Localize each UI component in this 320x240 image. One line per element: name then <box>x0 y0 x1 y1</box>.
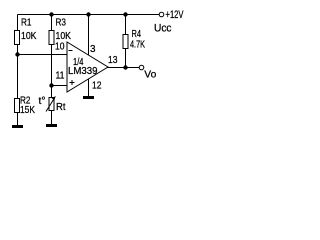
wire node B to Rt <box>51 86 53 98</box>
wire R4 bottom to output node <box>125 49 127 68</box>
svg-text:+12V: +12V <box>166 9 184 21</box>
ground (Rt) <box>46 124 57 127</box>
resistor R3 body <box>49 31 54 45</box>
wire top +12V rail <box>18 14 160 16</box>
wire Rt bottom to ground <box>51 111 53 125</box>
resistor R4 body <box>123 35 128 49</box>
node R4 top on rail <box>123 12 127 16</box>
svg-text:Ucc: Ucc <box>154 23 172 35</box>
resistor R2 body <box>15 99 20 113</box>
minus input symbol <box>69 50 73 52</box>
svg-text:15K: 15K <box>20 104 35 116</box>
wire pin 3 (V+ supply to rail) <box>88 15 90 56</box>
svg-text:11: 11 <box>56 70 65 82</box>
svg-text:Vo: Vo <box>144 69 156 81</box>
ground (pin 12) <box>83 96 94 99</box>
node pin3 on rail <box>86 12 90 16</box>
resistor R1 body <box>15 31 20 45</box>
wire node A to pin 10 (inverting input) <box>18 54 68 56</box>
node R3 top on rail <box>49 12 53 16</box>
terminal +12V (open circle) <box>159 12 164 17</box>
thermistor Rt arrow <box>46 98 55 112</box>
svg-text:12: 12 <box>92 80 102 92</box>
wire R2 bottom to ground <box>17 113 19 126</box>
thermistor Rt body <box>49 98 54 111</box>
svg-text:4.7K: 4.7K <box>130 39 145 51</box>
op-amp U1 1/4 LM339 triangle <box>67 42 108 92</box>
wire R3 top <box>51 15 53 31</box>
svg-text:t°: t° <box>39 95 46 107</box>
node A junction R1/R2 <box>15 52 19 56</box>
svg-text:LM339: LM339 <box>68 65 98 77</box>
wire node B to pin 11 (non-inverting input) <box>52 85 68 87</box>
node B junction R3/Rt/pin11 <box>49 83 53 87</box>
terminal Vo (open circle) <box>139 65 144 70</box>
wire R3 bottom to node B (crosses pin10 wire) <box>51 45 53 86</box>
svg-text:10: 10 <box>55 41 65 53</box>
svg-text:3: 3 <box>90 43 96 55</box>
plus input symbol <box>70 80 75 85</box>
ground (R2) <box>12 125 23 128</box>
svg-text:R3: R3 <box>56 17 67 29</box>
wire R4 top <box>125 15 127 35</box>
wire output pin 13 to Vo <box>108 67 140 69</box>
wire node A to R2 <box>17 55 19 99</box>
wire R1 bottom to node A <box>17 45 19 55</box>
svg-text:Rt: Rt <box>56 101 66 113</box>
node R4/output junction <box>123 65 127 69</box>
svg-text:10K: 10K <box>21 30 37 42</box>
svg-text:R1: R1 <box>21 17 32 29</box>
wire pin 12 (V- to ground) <box>88 79 90 96</box>
wire R1 top (rail to R1) <box>17 15 19 31</box>
svg-text:13: 13 <box>108 54 118 66</box>
